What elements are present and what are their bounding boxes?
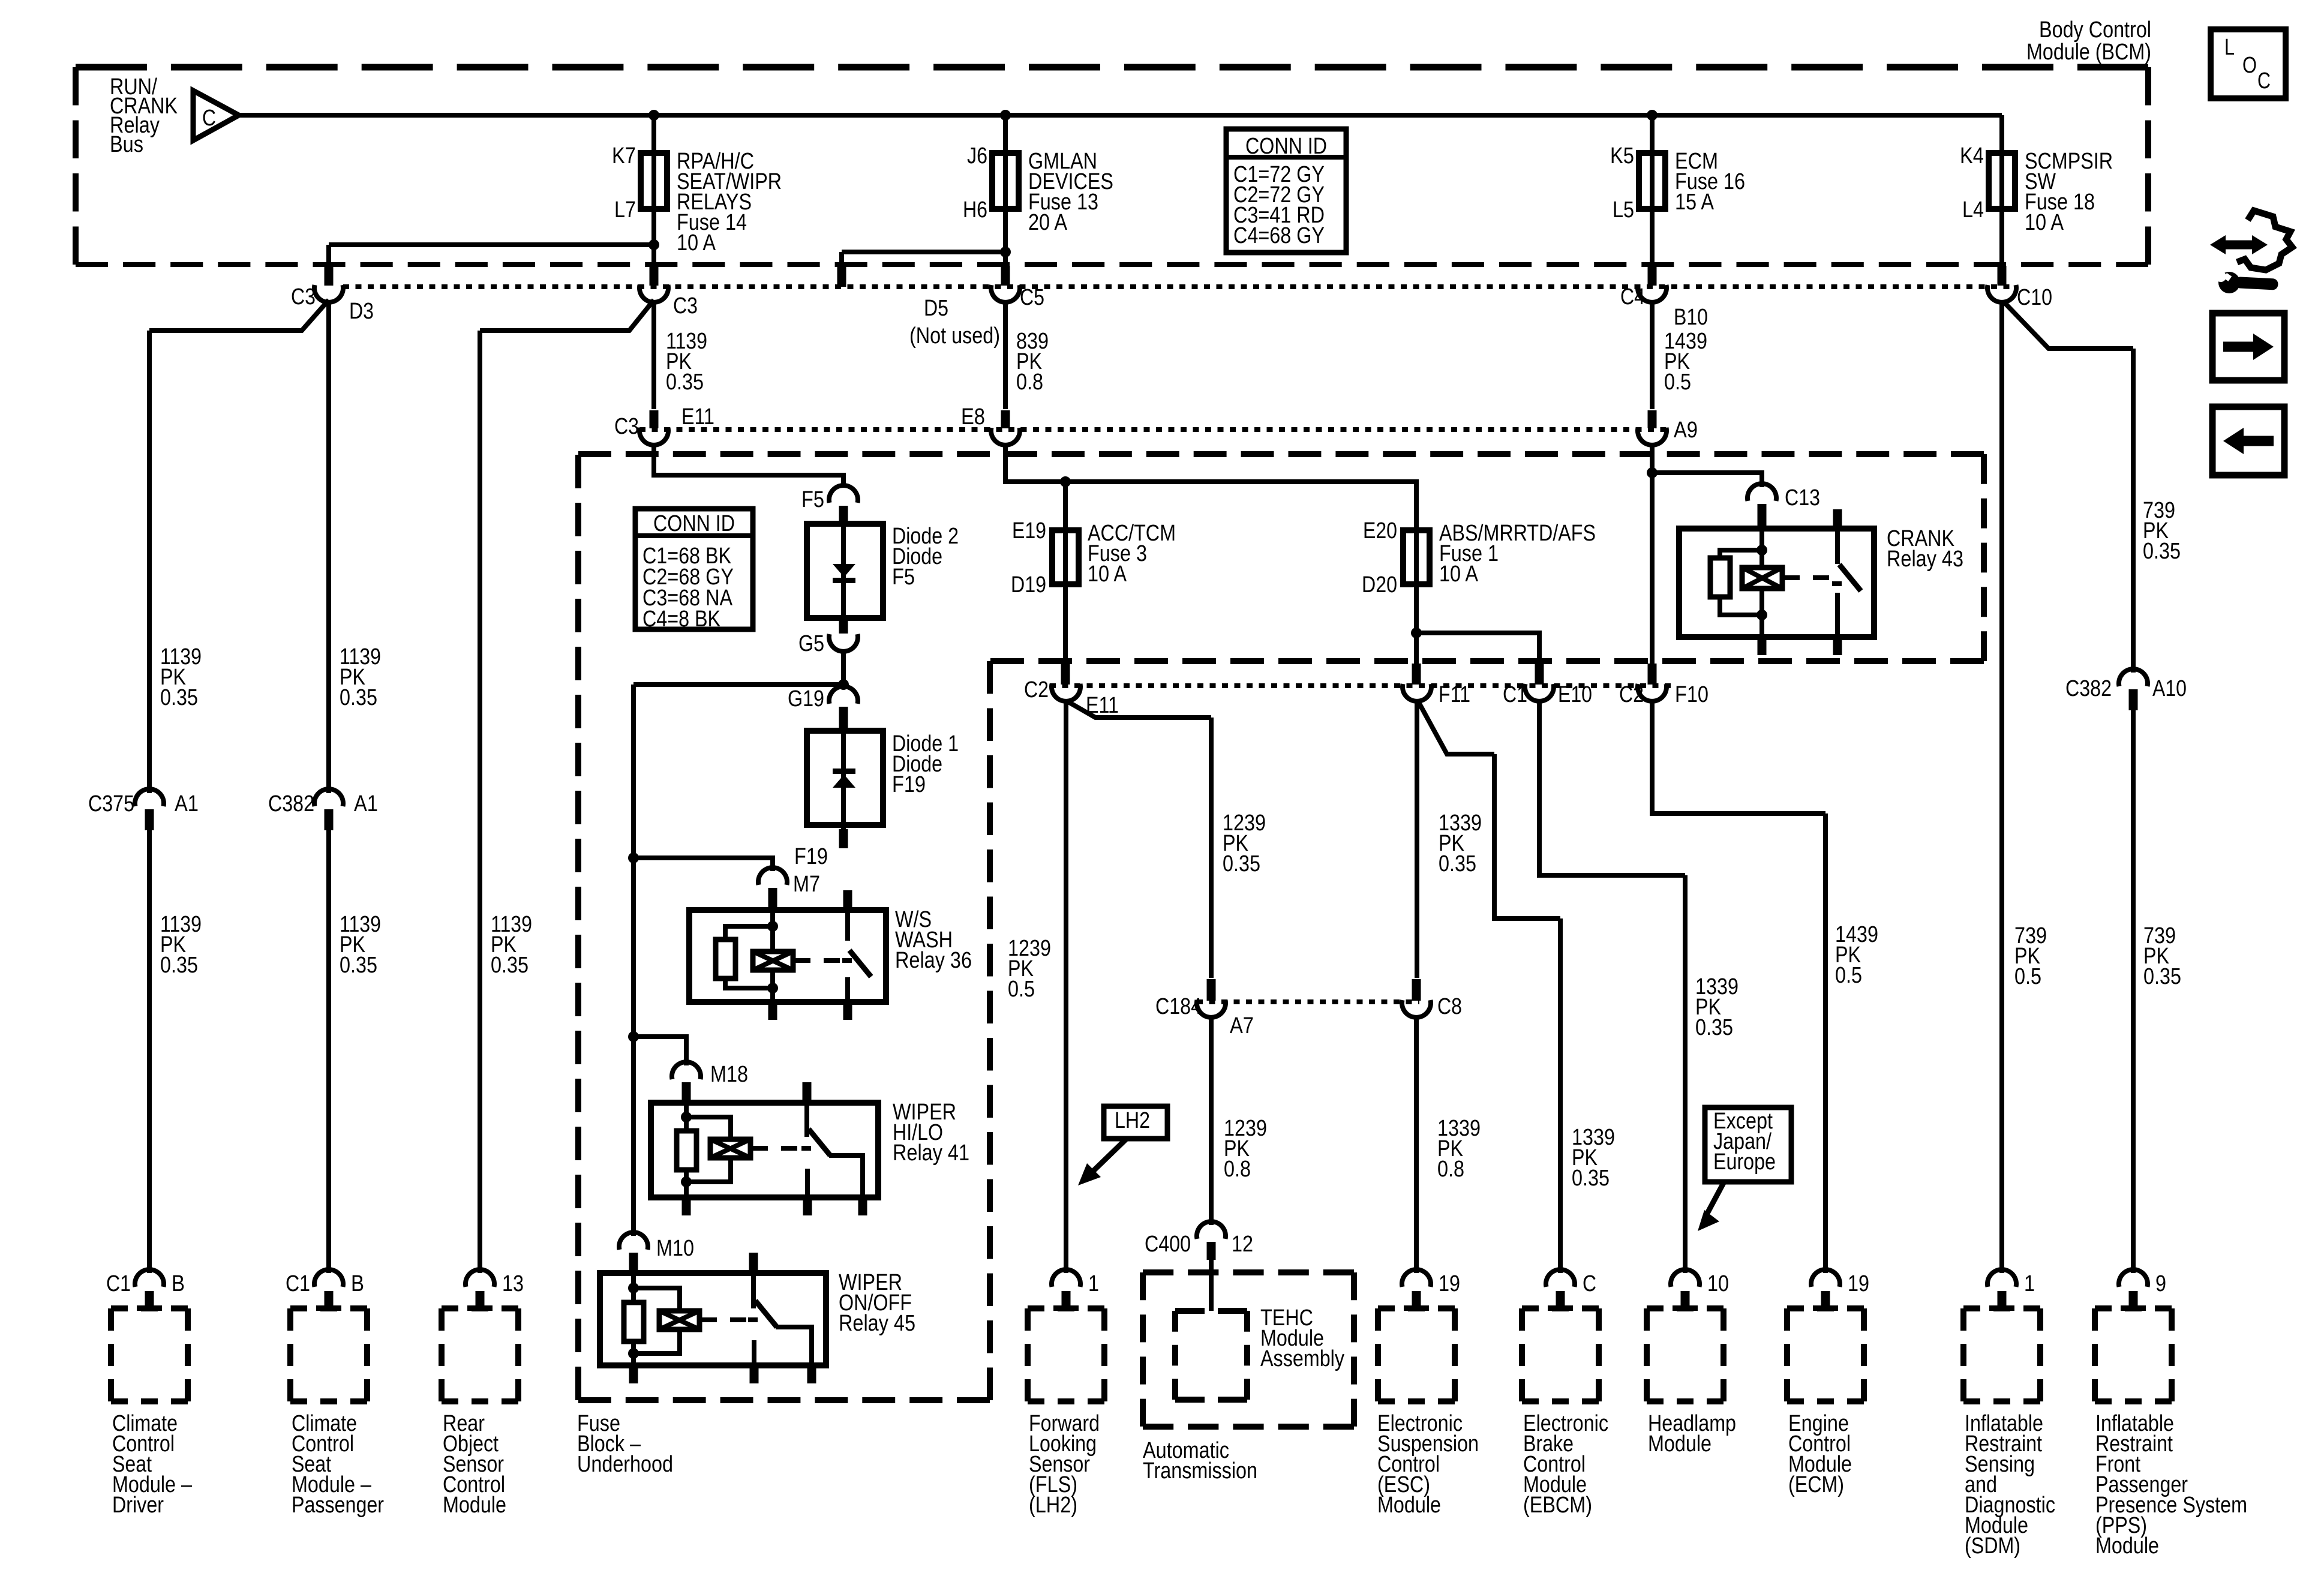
svg-text:A10: A10: [2152, 676, 2187, 701]
label: 1139 PK 0.35 (driver upper): [160, 644, 202, 710]
module: Inflatable Restraint SDM connector: [1987, 1269, 2035, 1311]
svg-text:F19: F19: [794, 844, 828, 869]
label: Body Control Module (BCM): [2026, 17, 2151, 65]
svg-text:H6: H6: [963, 197, 987, 223]
connector row 3 dotted line: [1050, 683, 1671, 688]
svg-text:Assembly: Assembly: [1260, 1346, 1344, 1371]
svg-text:G19: G19: [788, 686, 824, 712]
svg-text:10 A: 10 A: [1088, 562, 1127, 587]
wire: Fuse 18 to connector C10: [1999, 209, 2004, 267]
label: Electronic Suspension Control (ESC) Module: [1377, 1411, 1479, 1518]
module box: Climate Control Seat Module - Driver: [111, 1308, 188, 1401]
wire: A7 down to C400 (1239 PK 0.8): [1209, 1016, 1214, 1225]
label: K4 / L4 pins: [1960, 143, 1984, 223]
svg-text:C10: C10: [2017, 285, 2052, 310]
connector G5: [798, 618, 858, 656]
relay WIPER ON/OFF Relay 45: [600, 1253, 826, 1383]
label: Electronic Brake Control Module (EBCM): [1523, 1411, 1608, 1518]
label: Forward Looking Sensor (FLS): [1029, 1411, 1100, 1518]
label: Climate Control Seat Module - Passenger: [292, 1411, 384, 1518]
svg-text:Module: Module: [2095, 1533, 2159, 1559]
wire: C3 down (1139 PK 0.35): [651, 301, 656, 409]
svg-text:G5: G5: [798, 631, 824, 656]
label: Fuse 14 text: [677, 149, 782, 256]
fuse Fuse 13 (GMLAN DEVICES): [992, 153, 1019, 209]
svg-text:(ECM): (ECM): [1788, 1472, 1844, 1497]
wire: branch to D5 (not used): [842, 252, 1005, 267]
wire: rail branch to M7: [628, 852, 773, 871]
svg-text:E20: E20: [1363, 518, 1397, 544]
connector C184/A7: [1155, 979, 1254, 1038]
node C: RUN/CRANK Relay Bus label: [110, 74, 178, 157]
svg-text:C4=8 BK: C4=8 BK: [642, 607, 720, 632]
svg-text:A1: A1: [354, 791, 378, 816]
svg-text:E8: E8: [961, 404, 985, 430]
svg-text:10: 10: [1707, 1271, 1729, 1296]
svg-text:M10: M10: [656, 1236, 694, 1261]
svg-text:C3: C3: [673, 293, 698, 319]
label: Automatic Transmission: [1143, 1438, 1257, 1484]
svg-text:0.35: 0.35: [1439, 851, 1476, 876]
svg-text:0.35: 0.35: [160, 953, 198, 978]
module: Headlamp Module connector: [1671, 1269, 1729, 1311]
connector C2/F10: [1619, 664, 1709, 707]
wire: G5 to G19 junction: [838, 650, 849, 690]
svg-text:Relay 41: Relay 41: [893, 1140, 969, 1166]
svg-text:C13: C13: [1785, 485, 1820, 511]
wire: C8 down to ESC (1339 PK 0.8): [1414, 1016, 1419, 1273]
svg-text:C2: C2: [1619, 682, 1644, 707]
connector C4/B10: [1620, 266, 1708, 330]
wire: C5 down (839 PK 0.8): [1003, 301, 1008, 409]
module box: Inflatable Restraint SDM: [1963, 1308, 2040, 1401]
svg-text:Transmission: Transmission: [1143, 1458, 1257, 1484]
svg-text:C4=68 GY: C4=68 GY: [1233, 223, 1325, 248]
wire: C3/D3 diagonal to climate driver column: [149, 300, 329, 793]
svg-text:K5: K5: [1610, 143, 1634, 169]
connector C400/12: [1145, 1221, 1253, 1260]
module: Electronic Suspension Control (ESC) Module connector: [1402, 1269, 1460, 1311]
svg-text:Passenger: Passenger: [292, 1493, 384, 1518]
svg-text:Relay 36: Relay 36: [895, 948, 972, 973]
label: E20 / D20 pins: [1362, 518, 1397, 598]
connector F5: [801, 485, 858, 524]
wire: bus to Fuse 14: [648, 110, 659, 153]
svg-text:0.35: 0.35: [1223, 851, 1260, 876]
svg-text:Bus: Bus: [110, 132, 143, 157]
module box: Forward Looking Sensor (FLS): [1028, 1308, 1104, 1401]
connector row C184 dotted line: [1197, 999, 1419, 1004]
legend: CONN ID box (BCM): [1226, 129, 1346, 253]
svg-text:Underhood: Underhood: [577, 1452, 673, 1477]
connector C13: [1747, 484, 1820, 526]
svg-text:J6: J6: [967, 143, 987, 169]
connector C3 (to fuse block E11): [639, 266, 698, 319]
svg-text:B: B: [172, 1271, 185, 1296]
svg-text:0.35: 0.35: [340, 685, 377, 710]
connector E8: [961, 404, 1020, 445]
svg-text:19: 19: [1848, 1271, 1869, 1296]
diode Diode 2 (F5): [807, 524, 883, 618]
label: Rear Object Sensor Control Module: [443, 1411, 506, 1518]
connector F11: [1403, 664, 1470, 707]
connector A9: [1638, 410, 1698, 445]
fuse Fuse 1 (ABS/MRRTD/AFS): [1403, 530, 1430, 584]
svg-text:C184: C184: [1155, 994, 1202, 1019]
wire: E8 to Fuse 3 and Fuse 1: [1005, 444, 1416, 530]
connector C3/D3: [291, 266, 374, 324]
svg-text:0.35: 0.35: [1695, 1015, 1733, 1040]
svg-text:C3: C3: [291, 284, 316, 310]
label: K7 / L7 pins: [612, 143, 636, 223]
label: K5 / L5 pins: [1610, 143, 1634, 223]
label: 1239 PK 0.5: [1008, 936, 1051, 1002]
svg-text:F11: F11: [1439, 682, 1470, 707]
label: Fuse 3 text: [1088, 521, 1176, 587]
diode Diode 1 (F19): [807, 731, 883, 825]
svg-text:1: 1: [2024, 1271, 2035, 1296]
svg-text:0.5: 0.5: [2014, 964, 2041, 989]
svg-text:19: 19: [1439, 1271, 1460, 1296]
icon: wrench with arrows: [2210, 211, 2292, 293]
svg-text:O: O: [2242, 53, 2257, 78]
module box: Rear Object Sensor Control Module: [442, 1308, 518, 1401]
label: Inflatable Restraint PPS Module: [2095, 1411, 2247, 1559]
svg-text:L5: L5: [1613, 197, 1634, 223]
label box: LH2: [1078, 1106, 1167, 1185]
svg-text:Module: Module: [1377, 1493, 1441, 1518]
svg-text:A9: A9: [1674, 418, 1698, 443]
label: 1139 PK 0.35 (passenger upper): [340, 644, 381, 710]
label: Fuse 16 text: [1675, 149, 1745, 215]
connector C375/A1: [88, 789, 199, 830]
label: 1339 PK 0.35 EBCM: [1572, 1125, 1615, 1191]
svg-text:F5: F5: [892, 565, 915, 590]
label: 1239 PK 0.8: [1224, 1116, 1267, 1182]
label: Fuse Block - Underhood: [577, 1411, 673, 1477]
label: 1439 PK 0.5 ECM: [1835, 922, 1878, 988]
svg-text:0.8: 0.8: [1016, 370, 1043, 395]
svg-text:C1: C1: [106, 1271, 131, 1296]
wire: B10 down (1439 PK 0.5): [1650, 301, 1655, 409]
label: 739 PK 0.5 SDM: [2014, 923, 2047, 989]
svg-text:C: C: [1583, 1271, 1596, 1296]
legend: CONN ID box (fuse block): [635, 509, 753, 632]
svg-text:C1: C1: [286, 1271, 310, 1296]
wire: bus to Fuse 13: [1000, 110, 1011, 153]
label: Fuse 1 text: [1439, 521, 1596, 587]
label: W/S WASH Relay 36: [895, 907, 972, 973]
wire: C10 branch to PPS column (739 PK 0.35): [2003, 301, 2133, 673]
connector C10: [1987, 266, 2052, 310]
label: 739 PK 0.35 PPS: [2143, 923, 2181, 989]
wire: E10 to headlamp (1339 PK 0.35): [1539, 700, 1685, 1273]
label: E19 / D19 pins: [1011, 518, 1046, 598]
module: Rear Object Sensor Control Module connector: [466, 1269, 524, 1311]
connector M18: [672, 1062, 748, 1103]
icon: LOC box: [2211, 29, 2286, 98]
label: 1339 PK 0.35 headlamp: [1695, 974, 1739, 1040]
svg-text:(SDM): (SDM): [1965, 1533, 2020, 1559]
wire: Fuse 13 to connector C5: [1000, 209, 1011, 267]
relay WIPER HI/LO Relay 41: [651, 1082, 878, 1215]
svg-text:15 A: 15 A: [1675, 190, 1715, 215]
label: J6 / H6 pins: [963, 143, 987, 223]
wire: rail branch to M18: [628, 1031, 686, 1065]
wire: A1 down to climate passenger: [326, 830, 331, 1273]
wire: C3 diagonal to rear object column: [480, 300, 654, 1273]
label: Fuse 18 text: [2025, 149, 2113, 235]
svg-text:0.35: 0.35: [1572, 1166, 1610, 1191]
wire: Fuse 14 to connector C3: [648, 209, 659, 267]
svg-text:M18: M18: [710, 1062, 748, 1087]
connector C382/A10: [2065, 669, 2187, 710]
wire: A9 down to F10 with branch to C13: [1647, 444, 1762, 683]
svg-text:E19: E19: [1012, 518, 1046, 544]
svg-text:0.35: 0.35: [340, 953, 377, 978]
svg-text:F5: F5: [801, 487, 824, 512]
label: TEHC Module Assembly: [1260, 1305, 1344, 1371]
svg-text:E10: E10: [1558, 682, 1592, 707]
module box: Headlamp Module: [1647, 1308, 1724, 1401]
label: Engine Control Module (ECM): [1788, 1411, 1852, 1497]
svg-text:C4: C4: [1620, 284, 1645, 310]
svg-text:(EBCM): (EBCM): [1523, 1493, 1592, 1518]
module box: Electronic Suspension Control (ESC) Module: [1378, 1308, 1455, 1401]
label: CRANK Relay 43: [1887, 526, 1963, 572]
connector C1/E10: [1503, 664, 1592, 707]
svg-text:D3: D3: [349, 299, 374, 324]
svg-text:0.35: 0.35: [666, 370, 704, 395]
label: 1139 PK 0.35 (passenger lower): [340, 912, 381, 978]
wire: RUN/CRANK relay bus: [239, 113, 2002, 118]
label: 1339 PK 0.8: [1437, 1116, 1481, 1182]
module: Forward Looking Sensor (FLS) connector: [1052, 1269, 1099, 1311]
svg-text:0.8: 0.8: [1224, 1157, 1251, 1182]
svg-text:F19: F19: [892, 772, 926, 797]
svg-text:C1: C1: [1503, 682, 1527, 707]
svg-text:C400: C400: [1145, 1232, 1191, 1257]
svg-text:Module: Module: [443, 1493, 506, 1518]
fuse Fuse 3 (ACC/TCM): [1052, 530, 1079, 584]
wire: C400 into TEHC: [1209, 1260, 1214, 1311]
wire: bus elbow to Fuse 18: [1999, 115, 2004, 153]
module box: TEHC Module Assembly (inner): [1175, 1311, 1247, 1400]
svg-text:Body Control: Body Control: [2039, 17, 2151, 43]
fuse Fuse 14 (RPA/H/C SEAT/WIPR RELAYS): [641, 153, 667, 209]
module box: Climate Control Seat Module - Passenger: [290, 1308, 367, 1401]
label: 1339 PK 0.35: [1439, 810, 1482, 876]
svg-text:Relay 45: Relay 45: [839, 1311, 915, 1336]
svg-text:LH2: LH2: [1115, 1108, 1150, 1133]
connector M7: [758, 867, 820, 910]
module box: Body Control Module (BCM): [76, 67, 2148, 265]
label: 1139 PK 0.35 (rear object): [491, 912, 532, 978]
svg-text:0.35: 0.35: [160, 685, 198, 710]
relay CRANK Relay 43: [1679, 509, 1874, 655]
svg-text:Relay 43: Relay 43: [1887, 547, 1963, 572]
wire: bus to Fuse 16: [1647, 110, 1658, 153]
connector M10: [619, 1232, 694, 1273]
svg-text:CONN ID: CONN ID: [1245, 134, 1327, 159]
svg-text:0.35: 0.35: [2143, 539, 2181, 564]
module box: Fuse Block - Underhood (L-shape): [578, 454, 1984, 1400]
svg-text:20 A: 20 A: [1028, 210, 1068, 235]
label box: Except Japan/Europe: [1698, 1107, 1791, 1231]
svg-text:D20: D20: [1362, 572, 1397, 598]
label: WIPER HI/LO Relay 41: [893, 1100, 969, 1166]
wire: Fuse 3 down to C2/E11: [1063, 584, 1068, 683]
svg-text:L: L: [2224, 35, 2235, 60]
connector C8: [1402, 979, 1462, 1019]
svg-text:C2: C2: [1024, 677, 1049, 703]
label: 1139 PK 0.35: [666, 329, 707, 395]
svg-text:L4: L4: [1962, 197, 1984, 223]
module box: Automatic Transmission (outer): [1143, 1272, 1354, 1427]
svg-text:F10: F10: [1675, 682, 1709, 707]
module: Climate Control Seat Module - Driver connector: [106, 1269, 185, 1311]
svg-text:M7: M7: [793, 872, 820, 897]
svg-text:D5: D5: [924, 296, 948, 321]
wire: branch to D3: [329, 245, 654, 267]
svg-text:C8: C8: [1437, 994, 1462, 1019]
svg-text:0.35: 0.35: [491, 953, 529, 978]
label: 1139 PK 0.35 (driver lower): [160, 912, 202, 978]
svg-text:Europe: Europe: [1713, 1149, 1776, 1175]
module box: Electronic Brake Control Module (EBCM): [1522, 1308, 1599, 1401]
svg-text:CONN ID: CONN ID: [653, 511, 735, 536]
terminal F19: [794, 825, 843, 869]
icon: right arrow box: [2212, 313, 2284, 380]
wire: Fuse 1 down to F11 and E10: [1411, 584, 1539, 683]
fuse Fuse 18 (SCMPSIR SW): [1989, 153, 2015, 209]
module: Engine Control Module (ECM) connector: [1811, 1269, 1869, 1311]
svg-text:C3: C3: [614, 414, 639, 439]
connector C2/E11 (fuse block to harness): [1024, 664, 1119, 718]
svg-text:Module: Module: [1648, 1431, 1712, 1457]
svg-text:A1: A1: [175, 791, 199, 816]
svg-text:0.5: 0.5: [1835, 963, 1862, 988]
relay W/S WASH Relay 36: [689, 890, 886, 1020]
wire: E11 down to FLS (1239 PK 0.5): [1064, 700, 1068, 1273]
svg-text:Module (BCM): Module (BCM): [2026, 40, 2151, 65]
svg-text:E11: E11: [681, 404, 714, 430]
svg-text:(LH2): (LH2): [1029, 1493, 1077, 1518]
svg-text:9: 9: [2155, 1271, 2166, 1296]
wire: E11 to diode F5: [654, 444, 843, 488]
svg-text:C5: C5: [1020, 285, 1044, 310]
module box: Engine Control Module (ECM): [1787, 1308, 1864, 1401]
label: WIPER ON/OFF Relay 45: [839, 1270, 915, 1336]
svg-text:C375: C375: [88, 791, 134, 816]
fuse Fuse 16 (ECM): [1639, 153, 1665, 209]
wire: F11 down to C8 (1339 PK 0.35): [1415, 700, 1419, 978]
svg-text:1: 1: [1088, 1271, 1099, 1296]
svg-text:13: 13: [502, 1271, 524, 1296]
svg-text:D19: D19: [1011, 572, 1046, 598]
wire: Fuse 16 to connector C4: [1650, 209, 1655, 267]
wire: F10 to ECM (1439 PK 0.5): [1652, 700, 1825, 1273]
svg-text:10 A: 10 A: [2025, 210, 2064, 235]
svg-text:C: C: [202, 106, 216, 131]
wire: junction to left rail: [633, 685, 843, 1236]
wire: F11 branch to EBCM (1339 PK 0.35): [1418, 701, 1560, 1273]
connector C3/E11: [614, 404, 714, 445]
wire: A10 down to PPS (739 PK 0.35): [2131, 710, 2136, 1273]
svg-text:C382: C382: [2065, 676, 2112, 701]
svg-text:(Not used): (Not used): [909, 323, 1000, 349]
svg-text:0.8: 0.8: [1437, 1157, 1464, 1182]
connector C5: [991, 266, 1044, 310]
svg-text:12: 12: [1232, 1232, 1253, 1257]
wire: A1 down to climate driver: [147, 830, 152, 1273]
label: Headlamp Module: [1648, 1411, 1736, 1457]
wire: E11 branch to C184 (1239 PK 0.35): [1067, 701, 1211, 978]
label: Inflatable Restraint SDM: [1965, 1411, 2055, 1559]
svg-text:C: C: [2257, 68, 2271, 94]
label: Fuse 13 text: [1028, 149, 1113, 235]
svg-text:10 A: 10 A: [1439, 562, 1479, 587]
icon: left arrow box: [2212, 407, 2284, 475]
node C: triangle terminal: [193, 91, 239, 140]
module: Climate Control Seat Module - Passenger connector: [286, 1269, 364, 1311]
svg-text:0.5: 0.5: [1008, 977, 1035, 1002]
svg-text:K7: K7: [612, 143, 636, 169]
label: 1439 PK 0.5: [1664, 329, 1707, 395]
connector row 2 dotted line: [639, 427, 1669, 432]
svg-text:0.5: 0.5: [1664, 370, 1691, 395]
label: Diode 1 text: [892, 731, 959, 797]
label: 839 PK 0.8: [1016, 329, 1049, 395]
label: 1239 PK 0.35: [1223, 810, 1266, 876]
module: Electronic Brake Control Module (EBCM) connector: [1546, 1269, 1596, 1311]
label: Diode 2 text: [892, 524, 959, 590]
label: Climate Control Seat Module - Driver: [112, 1411, 193, 1518]
svg-text:10 A: 10 A: [677, 230, 716, 256]
svg-text:0.35: 0.35: [2143, 964, 2181, 989]
svg-text:L7: L7: [614, 197, 636, 223]
wire: C10 straight down to SDM: [1999, 301, 2004, 1273]
svg-text:Driver: Driver: [112, 1493, 164, 1518]
label: 739 PK 0.35 upper: [2143, 498, 2181, 564]
svg-text:A7: A7: [1230, 1013, 1254, 1038]
module box: Inflatable Restraint PPS Module: [2095, 1308, 2172, 1401]
wire: C3/D3 down to climate passenger column: [326, 301, 331, 793]
connector row 1 dotted line: [343, 284, 2016, 289]
connector G19: [788, 686, 858, 731]
connector D5 stub (not used): [842, 266, 1000, 349]
svg-text:B: B: [351, 1271, 364, 1296]
svg-text:B10: B10: [1674, 305, 1708, 330]
module: Inflatable Restraint PPS Module connector: [2119, 1269, 2166, 1311]
svg-text:K4: K4: [1960, 143, 1984, 169]
svg-text:C382: C382: [268, 791, 314, 816]
connector C382/A1: [268, 789, 378, 830]
